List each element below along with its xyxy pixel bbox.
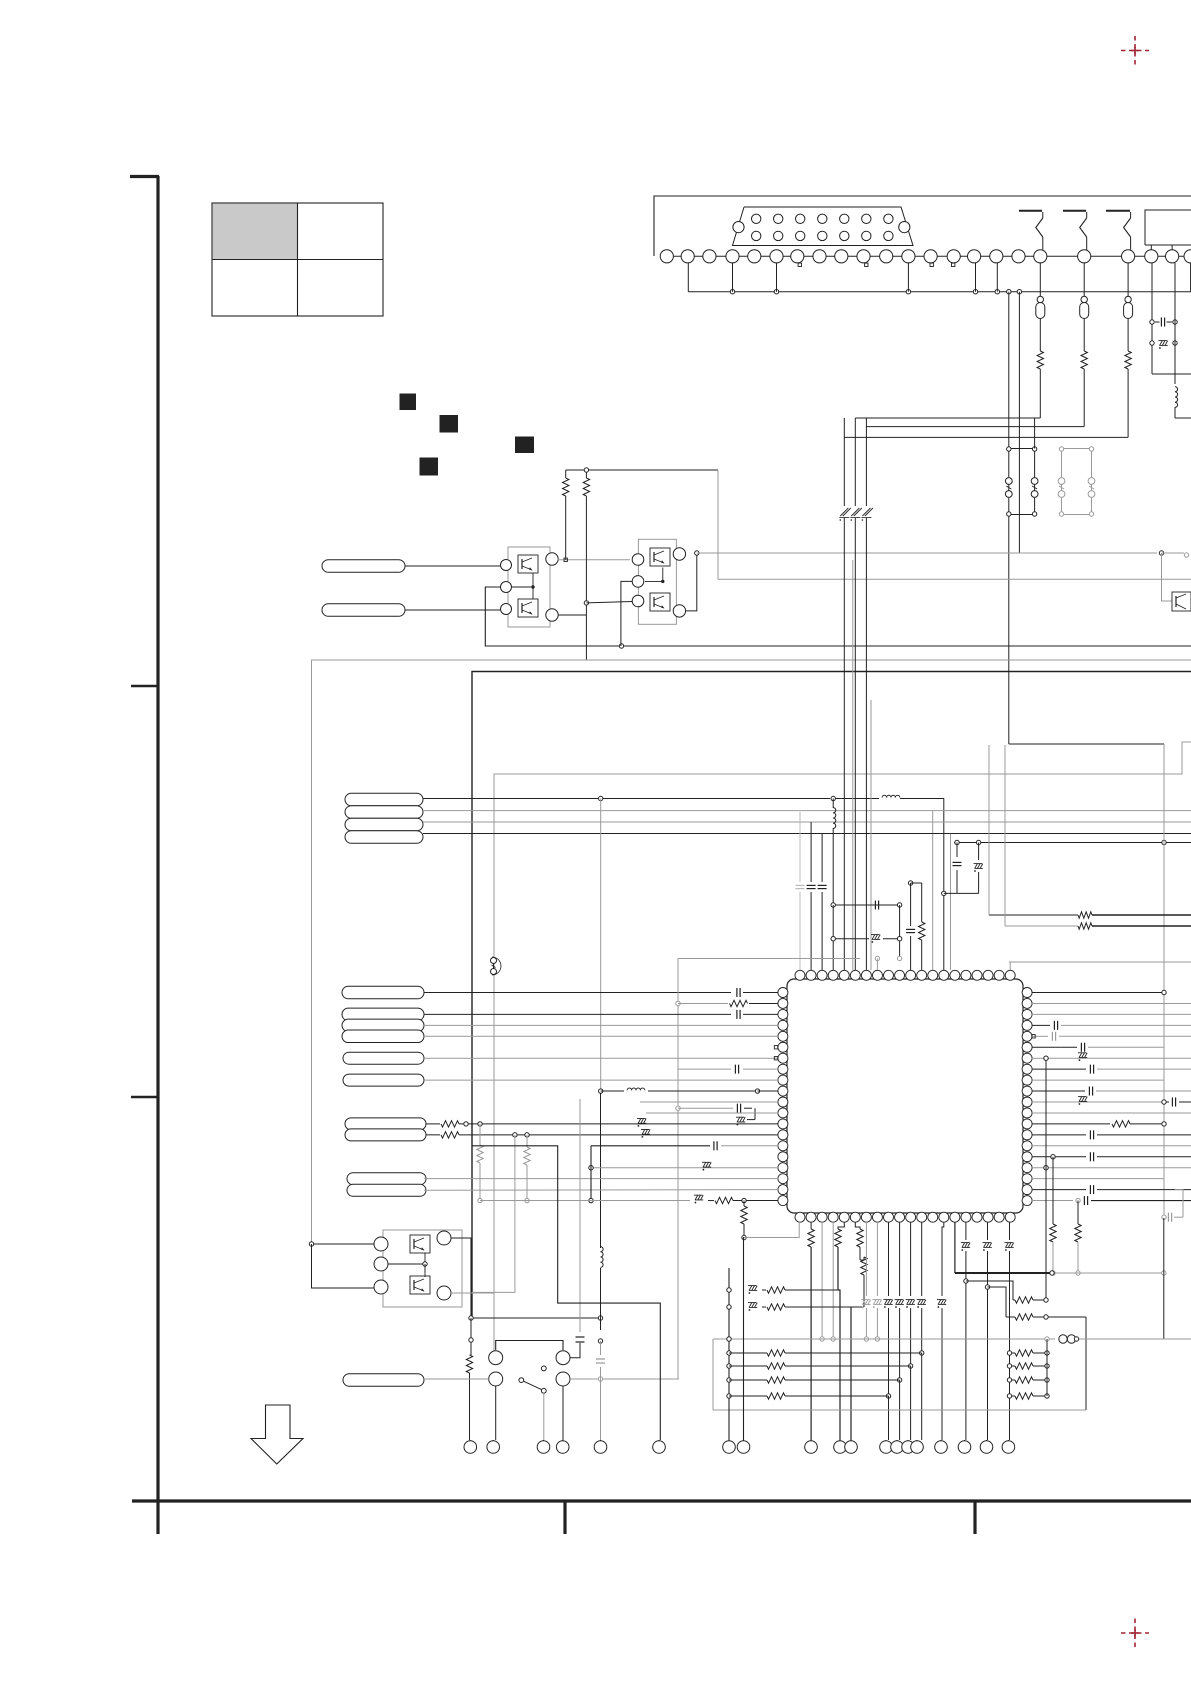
wire Q2 collector node xyxy=(685,551,699,611)
resistor R53 xyxy=(989,745,1191,918)
resistor R51 xyxy=(1050,1155,1056,1276)
wire pin L18 xyxy=(589,1162,778,1170)
marker square 3 xyxy=(516,437,534,453)
switch S1 frame xyxy=(496,1341,563,1351)
wire gz xyxy=(944,892,979,894)
wire power rail xyxy=(954,840,1191,844)
shield box gray xyxy=(312,660,1191,1244)
capacitor C41 xyxy=(737,988,778,997)
D-sub shell xyxy=(733,207,914,246)
connector pin J2 xyxy=(322,604,405,617)
wire bias 1318 xyxy=(469,1316,603,1320)
wire pin R19 xyxy=(1032,1185,1191,1194)
wire col 743 xyxy=(743,1237,745,1440)
wire pin R11 xyxy=(1032,1097,1191,1107)
wire pullup rail xyxy=(566,468,718,472)
wire pin L6 xyxy=(424,1046,778,1060)
wire node A xyxy=(619,644,1191,648)
connector pin P13 xyxy=(343,1374,424,1387)
varistor D201 xyxy=(1005,447,1012,516)
connector pin P3 xyxy=(345,793,423,806)
wire col 833 xyxy=(831,1222,835,1341)
wire sw drop3 xyxy=(543,1393,545,1440)
varistor D202 xyxy=(1031,418,1038,516)
resnet row 1396 xyxy=(729,1393,889,1399)
capacitor C51 xyxy=(1162,1190,1183,1222)
connector pin J1 xyxy=(322,560,405,573)
wire sw drop1 xyxy=(495,1386,497,1440)
wire chroma2 xyxy=(423,821,1191,823)
wire sw drop2 xyxy=(562,1386,564,1440)
marker square 4 xyxy=(420,458,438,475)
wire luma drop xyxy=(942,799,946,971)
wire Q1c1 to Q2 xyxy=(558,558,631,561)
terminal ground drops xyxy=(688,263,997,292)
wire pin R8 xyxy=(1032,1065,1191,1074)
wire P13 to S1 xyxy=(424,1378,489,1380)
wire net 1164 xyxy=(1163,744,1165,1218)
resistor R42 xyxy=(524,1135,530,1203)
wire power bus B xyxy=(955,1271,1054,1275)
resnet row 1353 xyxy=(729,1350,922,1356)
wire col 659 xyxy=(472,1146,660,1440)
jack leg 2 xyxy=(866,263,1088,427)
wire branch 515 xyxy=(472,1133,517,1293)
ground hatch C xyxy=(937,1222,946,1440)
resistor R71 xyxy=(466,1318,473,1440)
wire pin R12 xyxy=(1032,1112,1191,1114)
resnet row 1380 xyxy=(729,1377,900,1383)
connector pin group P8 xyxy=(342,1008,424,1042)
wire Q4 base2 xyxy=(312,1244,375,1288)
marker square 2 xyxy=(440,416,458,433)
ground hatches B xyxy=(884,1222,926,1440)
bottom tick 2 xyxy=(563,1501,566,1534)
transistor Q3 xyxy=(1172,592,1191,611)
wire pin R3 xyxy=(1032,1013,1191,1015)
IC IC301 pins top xyxy=(795,970,1015,980)
resistor R66 xyxy=(1006,1314,1086,1320)
terminal row xyxy=(464,1441,1015,1454)
wire Q4 out2 xyxy=(451,1292,494,1294)
inductor L72 xyxy=(601,1230,604,1318)
fold tick upper xyxy=(131,685,158,687)
transistor array Q2 xyxy=(632,539,685,624)
connector pin P10 xyxy=(343,1074,424,1086)
inner shield frame xyxy=(494,742,1191,1359)
resistor R61 xyxy=(808,1222,814,1440)
resnet right col xyxy=(1007,1339,1049,1399)
wire vert 1046 xyxy=(1044,1056,1048,1300)
capacitor C71 xyxy=(570,1099,585,1358)
inductor L101 xyxy=(1175,387,1191,418)
cap C101 xyxy=(1150,263,1177,374)
wire S1 pole gray xyxy=(570,1377,679,1381)
connector pin P11 xyxy=(345,1118,426,1141)
wire pin R10 xyxy=(1032,1087,1191,1096)
pin polarity squares xyxy=(798,263,955,266)
wire pin R1 xyxy=(1032,990,1166,994)
varistor D204 xyxy=(1088,447,1095,516)
wire j1287 xyxy=(985,1285,1006,1317)
inductor L32 xyxy=(833,799,836,906)
connector CN101 terminal rail xyxy=(660,255,1191,257)
wire chroma3 xyxy=(423,834,1191,971)
wire col 729 xyxy=(727,1268,731,1440)
wire pin L3 xyxy=(424,1013,731,1015)
wire pin R17 xyxy=(1032,1166,1191,1170)
varistor D203 xyxy=(1058,447,1065,516)
connector pin P9 xyxy=(343,1052,424,1064)
wire net 1009 lower xyxy=(1008,515,1010,745)
wire rail drop xyxy=(718,470,1191,579)
connector pin P5 xyxy=(345,818,423,831)
capacitor C31 xyxy=(796,812,805,970)
shield bus junctions xyxy=(730,290,1021,294)
transistor array Q4 xyxy=(374,1230,462,1307)
wire pin L8 xyxy=(424,1079,778,1081)
wire pin L9 xyxy=(678,1065,778,1074)
wire video out xyxy=(697,551,1189,557)
IC IC301 pins right xyxy=(1022,988,1032,1206)
wire net 1009 upper xyxy=(1008,292,1010,449)
wire pin R16 xyxy=(1032,1152,1191,1161)
IC IC301 pins bottom xyxy=(795,1212,1015,1222)
wire y600 drop xyxy=(600,799,602,1249)
varistor bus bottom B xyxy=(1062,514,1092,516)
wire bundle 4 xyxy=(853,560,871,970)
capacitor C72 xyxy=(596,1339,605,1440)
main block frame xyxy=(472,672,1191,1319)
bottom tick 3 xyxy=(973,1501,976,1534)
rear connector stems xyxy=(1151,245,1172,250)
wire pin L22 xyxy=(480,1195,778,1204)
resistor R54 xyxy=(1005,745,1191,929)
wire bundle 3 xyxy=(865,418,867,970)
wire Q2 base mid xyxy=(621,581,632,646)
wire pin L14 resnet xyxy=(426,1119,778,1128)
wire net 1019 xyxy=(1018,292,1020,553)
wire pin R9 xyxy=(1032,1079,1164,1081)
transistor array Q1 xyxy=(501,547,559,627)
varistor bus top B xyxy=(1062,448,1092,450)
wire right 374 xyxy=(1152,373,1191,375)
wire chroma1 xyxy=(423,811,1191,970)
varistor bus bottom A xyxy=(1009,514,1035,516)
wire pin L15 resnet xyxy=(426,1129,778,1138)
wire pin R18 xyxy=(1032,1178,1164,1180)
jack spring contacts xyxy=(1036,212,1131,250)
flow arrow down xyxy=(251,1405,303,1464)
inductor L31 xyxy=(882,795,944,798)
resistor R65 xyxy=(1013,1297,1048,1303)
resistor R52 xyxy=(1075,1201,1081,1276)
wire pin L2 xyxy=(676,959,778,1380)
resistor R64 xyxy=(851,1257,867,1440)
capacitor C43 xyxy=(591,1141,778,1150)
wire pin R20 xyxy=(1032,1196,1191,1205)
wire pin L17 xyxy=(424,1189,778,1192)
wire Q1 base2 down xyxy=(485,587,621,646)
connector CN101 terminals xyxy=(660,250,1191,263)
resistor R63 xyxy=(855,1222,863,1260)
jack leg 3 xyxy=(844,263,1132,438)
ferrite FB1 xyxy=(1059,1335,1191,1343)
wire Q4 out1 xyxy=(451,1238,471,1318)
wire bundle 2 xyxy=(854,418,856,970)
resnet row 1366 xyxy=(729,1363,911,1369)
ground Z32 xyxy=(974,843,983,894)
wire pin L4 xyxy=(424,1024,778,1026)
ground Z31 xyxy=(831,935,902,970)
connector pin P12 xyxy=(347,1173,426,1197)
wire J2 to Q1 xyxy=(405,609,501,611)
wire j1281 xyxy=(964,1279,1013,1300)
page grid table xyxy=(212,203,383,316)
wire col 953 xyxy=(954,1222,956,1273)
wire J1 to Q1 xyxy=(405,565,501,567)
wire pin L12 xyxy=(640,1101,778,1103)
ground Z101 xyxy=(1150,263,1177,384)
registration crosshair bottom xyxy=(1121,1619,1149,1648)
ground hatches A xyxy=(861,1222,881,1341)
D-sub pins xyxy=(733,214,910,240)
wire gnd bus 1339 xyxy=(713,1337,1055,1341)
IC IC301 body xyxy=(787,979,1023,1213)
bottom tick 1 xyxy=(156,1501,159,1534)
wire pin L5 xyxy=(424,1035,778,1037)
resistor R62 xyxy=(835,1222,845,1440)
marker square 1 xyxy=(400,394,416,410)
switch S1 xyxy=(489,1351,570,1394)
wire to Q3 xyxy=(1162,553,1173,601)
wire 1086 drop xyxy=(1085,1317,1087,1410)
resistor R11 xyxy=(563,470,569,560)
supply hatches xyxy=(961,1222,1014,1440)
capacitor C36 xyxy=(953,843,962,894)
resistor R31 xyxy=(911,883,925,970)
capacitor C35 xyxy=(906,881,915,970)
varistor bus top A xyxy=(1009,448,1035,450)
capacitor C34 xyxy=(831,901,902,939)
rear connector box xyxy=(1145,210,1191,245)
ferrite bead FB2 xyxy=(491,957,502,975)
wire Q4 mid xyxy=(388,1262,427,1272)
resistor R41 xyxy=(477,1124,483,1203)
fold tick lower xyxy=(131,1096,158,1098)
wire stub 1190 xyxy=(1190,263,1191,292)
wire net 962 xyxy=(1009,962,1191,970)
connector CN101 outline xyxy=(654,196,1191,256)
wire pin R4 xyxy=(1032,1021,1191,1030)
wire luma xyxy=(423,796,879,800)
page border left rule xyxy=(130,176,159,1501)
capacitor C42 xyxy=(737,1010,778,1019)
registration crosshair top xyxy=(1121,36,1149,65)
wire bundle 1 xyxy=(843,418,845,970)
shield bus xyxy=(688,291,1191,293)
IC IC301 pins left xyxy=(778,988,788,1206)
capacitor C32 xyxy=(807,822,816,970)
wire pin R6 xyxy=(1032,1043,1164,1052)
resnet row 1307 xyxy=(748,1303,851,1311)
wire pin R15 xyxy=(1032,1145,1191,1147)
wire pin R7 xyxy=(1032,1053,1191,1061)
capacitor C44 xyxy=(678,1104,755,1126)
wire Q1c2 link xyxy=(558,601,632,615)
shield hatch marks xyxy=(839,508,873,521)
wire pin R13 xyxy=(1032,1121,1166,1127)
jack leg 1 xyxy=(855,263,1045,418)
wire gnd rail 1273 xyxy=(1052,1218,1166,1339)
resnet row 1290 xyxy=(748,1286,838,1294)
terminal stubs xyxy=(470,1439,1008,1442)
wire gnd box xyxy=(713,1339,1086,1410)
wire pin R14 xyxy=(1032,1130,1191,1139)
wire net 744 xyxy=(1009,743,1164,745)
wire pin L16 xyxy=(424,1178,778,1180)
connector pin P4 xyxy=(345,806,423,819)
resistor R43 xyxy=(741,1201,799,1240)
inductor L71 xyxy=(600,1318,602,1330)
wire Q4 in xyxy=(309,1242,374,1246)
wire pin L19 xyxy=(589,1146,593,1203)
wire pin L1 xyxy=(424,992,731,994)
resistor R12 xyxy=(583,470,589,660)
connector pin P6 xyxy=(345,831,423,844)
wire gray box corner xyxy=(678,956,902,970)
connector pin P7 xyxy=(342,986,424,999)
wire pin R5 xyxy=(1032,1032,1191,1041)
capacitor C33 xyxy=(818,834,827,971)
wire pin L13 xyxy=(646,1112,778,1114)
wire col 822 xyxy=(820,1222,824,1341)
wire pin L11 inductor xyxy=(599,1088,779,1093)
shield tab dashes xyxy=(1019,210,1130,212)
wire pin R2 xyxy=(1032,1002,1191,1004)
page border bottom rule xyxy=(132,1499,1191,1502)
